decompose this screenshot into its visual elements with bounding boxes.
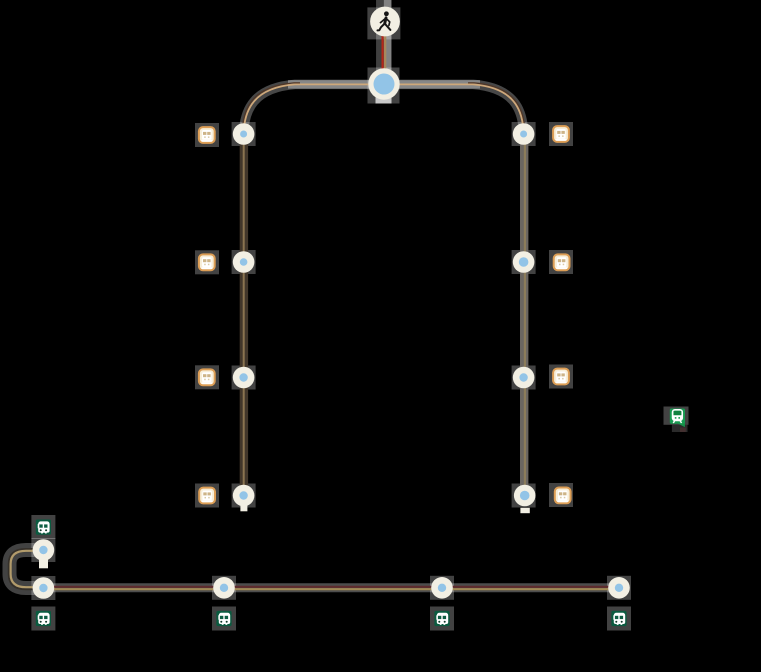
node square B4 <box>607 576 631 600</box>
wire bottom maroon <box>43 586 619 588</box>
icon square bus B2 <box>212 607 236 631</box>
bus stop icon B1 <box>36 611 51 626</box>
icon square tram R2 <box>549 250 573 274</box>
bus stop icon B4 <box>611 611 626 626</box>
tram stop icon L4 <box>199 488 215 504</box>
wire right column band <box>520 130 528 496</box>
node square L1 <box>232 122 256 146</box>
node square B3 <box>430 576 454 600</box>
icon square bus B3 <box>430 607 454 631</box>
node B4 <box>608 577 630 599</box>
node R1 <box>513 123 535 145</box>
rail stop icon <box>670 409 685 428</box>
icon square tram L1 <box>195 123 219 147</box>
node R3 <box>513 367 535 389</box>
node R2 <box>513 251 535 273</box>
bus stop icon B3 <box>434 611 449 626</box>
node square R4 <box>512 484 536 508</box>
hub node <box>368 68 399 99</box>
rail icon lower shadow <box>672 425 688 432</box>
wire arch halo horizontal second pass <box>288 80 480 89</box>
node square L2 <box>232 250 256 274</box>
node B0 <box>33 539 55 561</box>
icon square tram R1 <box>549 122 573 146</box>
wire loop halo <box>10 550 44 588</box>
wire left column tan <box>243 130 245 496</box>
wire walk-link halo <box>376 0 392 100</box>
tram stop icon R1 <box>553 126 569 142</box>
icon square bus B1 <box>31 607 55 631</box>
icon square bus B0 <box>31 515 55 539</box>
wire arch dark upper right <box>468 83 525 134</box>
stem tab below node B0 <box>39 559 48 568</box>
tram stop icon R4 <box>555 488 571 504</box>
node square L4 <box>232 484 256 508</box>
node R4 <box>514 485 536 507</box>
wire walk-link halo right overlap <box>384 0 392 100</box>
wire right column tan <box>524 130 526 496</box>
icon square tram R3 <box>549 365 573 389</box>
node L2 <box>233 251 255 273</box>
wire arch tan <box>244 84 524 136</box>
icon square tram L3 <box>195 365 219 389</box>
node square L3 <box>232 366 256 390</box>
node L1 <box>233 123 255 145</box>
node square hub <box>368 68 400 104</box>
node B3 <box>431 577 453 599</box>
wire loop tan <box>11 551 44 587</box>
node square B0 <box>31 538 55 562</box>
icon square tram L4 <box>195 484 219 508</box>
wire bottom tan <box>43 588 619 590</box>
icon square rail <box>664 407 689 425</box>
tram stop icon L1 <box>199 127 215 143</box>
icon square bus B4 <box>607 607 631 631</box>
wire loop dark <box>9 549 44 590</box>
wire arch halo <box>244 84 524 136</box>
tram stop icon L3 <box>199 369 215 385</box>
node square R1 <box>512 122 536 146</box>
bus stop icon B2 <box>216 611 231 626</box>
wire bottom line halo <box>43 583 619 592</box>
walk icon <box>370 7 400 37</box>
node B2 <box>213 577 235 599</box>
node square B2 <box>212 576 236 600</box>
bus stop icon B0 <box>36 520 51 535</box>
stem tab below node R4 <box>520 508 529 513</box>
stem tab below node L4 <box>240 505 247 511</box>
hub lower light tab <box>376 96 392 104</box>
node L4 <box>233 485 255 507</box>
node B1 <box>33 577 55 599</box>
tram stop icon L2 <box>199 254 215 270</box>
wire arch dark upper left <box>242 83 300 134</box>
icon square tram L2 <box>195 250 219 274</box>
wire walk-link tan <box>384 30 386 70</box>
node square R2 <box>512 250 536 274</box>
wire left column band <box>240 130 248 496</box>
node square walk <box>367 7 400 39</box>
node L3 <box>233 367 255 389</box>
rail icon lower shadow red tint <box>680 428 686 432</box>
node square B1 <box>31 576 55 600</box>
wire walk-link red <box>382 30 384 70</box>
icon square tram R4 <box>549 483 573 507</box>
tram stop icon R3 <box>553 369 569 385</box>
node square R3 <box>512 366 536 390</box>
tram stop icon R2 <box>554 254 570 270</box>
